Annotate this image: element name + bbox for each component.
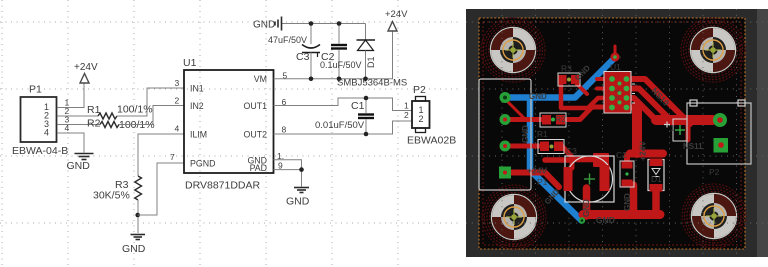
svg-text:P1: P1 — [537, 177, 548, 187]
U1 footprint copper — [604, 72, 631, 114]
svg-text:R2: R2 — [555, 114, 566, 124]
capacitor C2 — [320, 24, 362, 79]
trace R1 to C3 — [562, 146, 572, 168]
wire P1 pin2 to R1 — [57, 115, 98, 117]
C2 footprint — [620, 161, 634, 187]
svg-text:DRV8871DDAR: DRV8871DDAR — [185, 180, 261, 192]
svg-text:GND: GND — [67, 160, 91, 172]
via bottom of blue trace — [579, 217, 585, 223]
svg-text:U1: U1 — [183, 57, 197, 69]
svg-text:0.1uF/50V: 0.1uF/50V — [320, 60, 362, 70]
trace U1 fan to P2 — [628, 79, 690, 124]
pcb grid — [466, 9, 768, 257]
trace P2 area stub — [686, 124, 691, 140]
svg-text:D1: D1 — [366, 56, 376, 68]
power flag GND (top rail) — [253, 17, 282, 31]
trace C3 top — [545, 157, 603, 163]
pcb scrollbar strip — [757, 9, 768, 257]
svg-text:P1: P1 — [29, 84, 42, 96]
ground symbol (P1 pin4) — [75, 154, 94, 160]
wire P1 pin1 to +24V — [57, 83, 84, 108]
trace pad1 diag — [507, 101, 526, 120]
board area — [479, 18, 745, 249]
svg-text:GND: GND — [582, 199, 591, 217]
wire VM rail (U1 pin5 to +24V) — [274, 31, 393, 79]
power flag +24V (left) — [74, 62, 98, 83]
svg-text:C2: C2 — [616, 150, 627, 160]
svg-text:GND: GND — [623, 193, 632, 211]
P1 footprint silkscreen — [479, 79, 531, 190]
mounting hole bottom-right — [682, 184, 746, 248]
wire P1 pin3 to R2 — [57, 124, 100, 126]
ground symbol (U1 pad) — [294, 188, 309, 193]
svg-text:GND: GND — [521, 125, 530, 143]
junction C3 top — [309, 21, 314, 26]
wire R1 to U1 IN1 — [117, 88, 184, 116]
junction C2 top — [337, 21, 342, 26]
op-amp/driver U1 — [183, 57, 274, 192]
connector P2 — [407, 84, 456, 147]
svg-text:SMBJ5364B-MS: SMBJ5364B-MS — [337, 78, 407, 89]
trace C2 right stripe — [630, 185, 638, 212]
trace +24V stripe below U1 — [632, 106, 642, 153]
P1 pads — [499, 92, 511, 179]
top-copper traces — [505, 46, 713, 216]
svg-text:EBWA02B: EBWA02B — [407, 135, 456, 147]
svg-text:PAD: PAD — [250, 163, 267, 173]
junction C2 bottom — [337, 77, 342, 82]
mounting hole top-left — [481, 18, 545, 82]
trace +24V P1.4 — [505, 173, 559, 188]
svg-text:P2: P2 — [709, 167, 720, 177]
wire R2 to U1 IN2 — [119, 106, 184, 125]
svg-text:A1: A1 — [615, 88, 621, 93]
pcb net labels red/orange — [596, 86, 703, 225]
svg-text:0.01uF/50V: 0.01uF/50V — [315, 120, 365, 131]
svg-text:IN2: IN2 — [190, 101, 204, 111]
connector P1 — [21, 97, 57, 142]
svg-text:B2: B2 — [615, 95, 621, 100]
svg-text:7: 7 — [170, 152, 175, 162]
svg-text:VM: VM — [254, 74, 267, 84]
U1 top via pad — [611, 53, 620, 62]
trace U1 top stub — [614, 46, 617, 57]
svg-text:9: 9 — [278, 161, 283, 171]
U1 pads — [609, 76, 629, 110]
junction C1 bottom — [364, 132, 369, 137]
svg-text:P2: P2 — [413, 84, 426, 96]
svg-text:1: 1 — [670, 123, 675, 133]
svg-text:4: 4 — [175, 124, 180, 134]
svg-text:4: 4 — [44, 128, 49, 138]
schematic canvas grid — [0, 0, 462, 267]
trace D1 bottom — [652, 189, 660, 211]
diode D1 — [337, 24, 407, 89]
bottom-copper trace GND (P1.1 to U1 pad) — [506, 58, 615, 221]
svg-text:D1: D1 — [651, 174, 662, 184]
wire U1 ILIM to R3 — [138, 134, 184, 176]
pcb net labels yellow — [521, 63, 632, 217]
svg-text:4: 4 — [65, 123, 70, 133]
wire OUT2 to P2 pin2 — [274, 121, 413, 134]
svg-text:C3: C3 — [566, 146, 577, 156]
D1 footprint — [648, 159, 664, 192]
wire U1 GND/PAD pins to GND — [274, 160, 302, 187]
R1 footprint — [538, 140, 564, 154]
pcb silkscreen texts — [537, 62, 720, 187]
resistor R1 — [87, 104, 153, 120]
wire OUT1 to P2 pin1 — [274, 98, 413, 111]
P2 pads — [713, 113, 728, 153]
trace C3 to GND pour — [583, 188, 591, 216]
trace R3 right to U1 — [577, 84, 587, 94]
R2 footprint — [540, 113, 566, 127]
power flag +24V (right) — [385, 9, 408, 31]
wire R3 to GND junction — [137, 200, 139, 233]
wire PGND to junction — [138, 163, 184, 215]
trace R3 left down — [561, 84, 609, 108]
junction (R3/PGND/GND) — [135, 213, 140, 218]
svg-text:+24V: +24V — [527, 166, 547, 176]
svg-text:GND: GND — [122, 243, 146, 255]
svg-text:NS11: NS11 — [683, 142, 703, 151]
svg-text:+24V: +24V — [74, 62, 98, 73]
trace P1.2 to R2 — [505, 117, 544, 122]
svg-text:30K/5%: 30K/5% — [93, 190, 130, 202]
resistor R2 — [87, 118, 155, 132]
wire P1 pin4 to GND — [57, 133, 84, 153]
capacitor C1 — [315, 98, 374, 134]
junction D1 bottom — [363, 77, 368, 82]
svg-text:C1: C1 — [351, 100, 365, 112]
C1 footprint — [664, 119, 687, 141]
pcb canvas background — [466, 9, 768, 257]
svg-text:U1: U1 — [610, 62, 621, 72]
svg-text:3: 3 — [175, 78, 180, 88]
ground symbol (R3) — [131, 235, 146, 240]
trace P1.3 to R1 — [505, 144, 544, 149]
mounting hole top-right — [681, 18, 745, 82]
svg-text:C3: C3 — [296, 51, 310, 63]
svg-text:R1: R1 — [537, 129, 548, 139]
svg-text:GND: GND — [253, 20, 275, 31]
trace C3 pour corner — [594, 154, 608, 166]
trace bottom GND bus — [583, 210, 660, 219]
svg-text:GND: GND — [596, 215, 615, 225]
trace U1 left pad stubs — [597, 77, 606, 81]
resistor R3 — [93, 176, 142, 202]
svg-text:R2: R2 — [87, 118, 101, 130]
svg-text:6: 6 — [282, 97, 287, 107]
trace R2 to U1 — [562, 107, 610, 120]
board outline — [479, 18, 745, 249]
trace bus to P2.1 — [656, 115, 713, 125]
svg-text:2: 2 — [419, 114, 424, 124]
svg-text:2: 2 — [175, 96, 180, 106]
svg-text:ILIM: ILIM — [190, 130, 207, 140]
svg-text:R3: R3 — [561, 64, 572, 74]
junction C3 bottom — [309, 77, 314, 82]
svg-text:2: 2 — [404, 110, 409, 120]
svg-text:GND: GND — [529, 92, 547, 101]
svg-text:OUT2: OUT2 — [244, 130, 268, 140]
wire GND top rail — [282, 23, 366, 25]
svg-text:IN1: IN1 — [190, 84, 204, 94]
svg-text:8: 8 — [282, 125, 287, 135]
capacitor C3 — [268, 24, 320, 79]
junction C1 top — [364, 96, 369, 101]
svg-text:+24V: +24V — [385, 9, 408, 20]
svg-text:5: 5 — [283, 71, 288, 81]
svg-text:OUT1: OUT1 — [244, 101, 268, 111]
junction (GND/PAD) — [299, 167, 304, 172]
svg-text:1.: 1. — [277, 151, 284, 161]
svg-text:EBWA-04-B: EBWA-04-B — [12, 145, 68, 157]
svg-text:PGND: PGND — [190, 159, 215, 169]
R3 footprint — [558, 73, 580, 86]
C3 footprint — [564, 156, 615, 202]
svg-text:1: 1 — [404, 101, 409, 111]
copper pour boundary — [483, 22, 741, 245]
svg-text:+24V: +24V — [638, 141, 648, 161]
P2 footprint silkscreen — [687, 100, 751, 164]
svg-text:47uF/50V: 47uF/50V — [268, 35, 307, 45]
svg-text:GND: GND — [286, 196, 310, 208]
svg-text:R1: R1 — [87, 104, 101, 116]
mounting hole bottom-left — [482, 185, 546, 249]
